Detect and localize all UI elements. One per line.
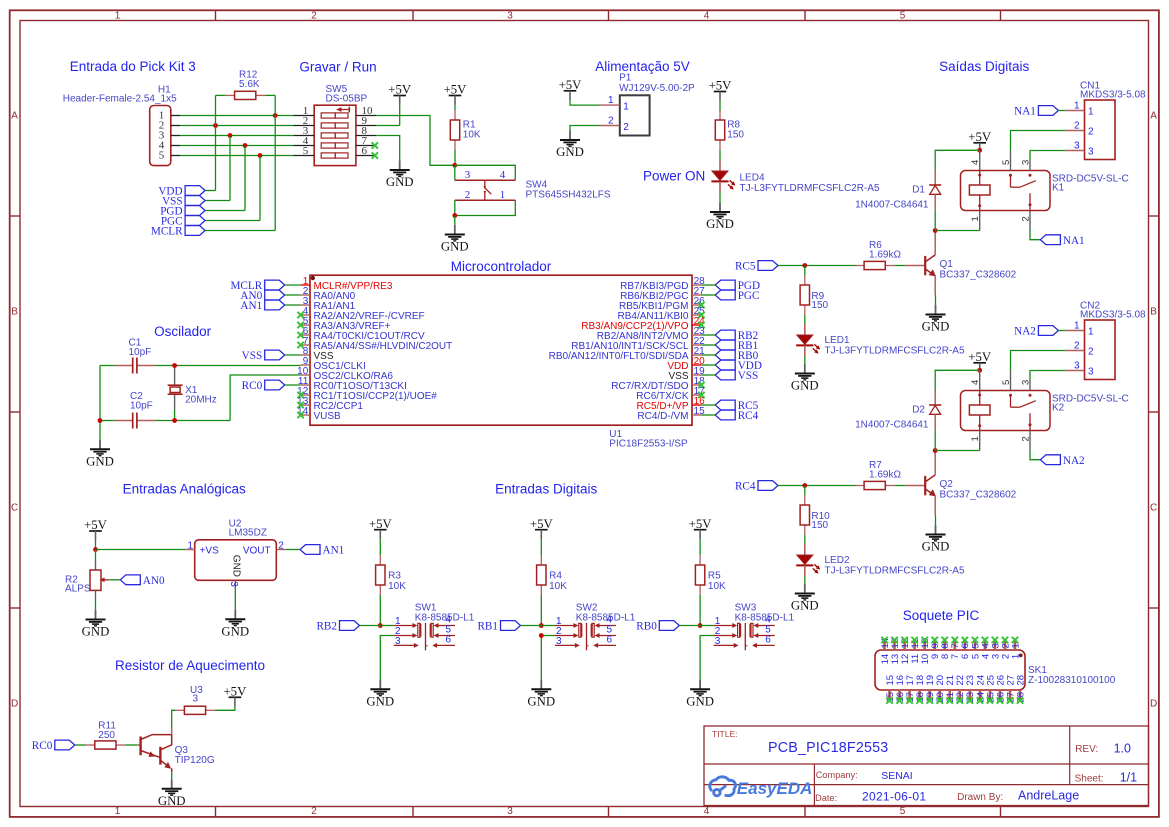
svg-text:D1: D1	[912, 185, 925, 196]
svg-text:250: 250	[98, 730, 115, 741]
svg-text:1N4007-C84641: 1N4007-C84641	[855, 420, 929, 431]
svg-text:+5V: +5V	[223, 685, 247, 699]
wire U1 to VDD flag	[701, 364, 715, 366]
svg-text:MKDS3/3-5.08: MKDS3/3-5.08	[1080, 90, 1146, 101]
net flag PGC	[161, 216, 205, 228]
ground GND below LED2	[791, 584, 819, 613]
wire collector node to K1 pin 1	[935, 230, 980, 232]
wire D1 to Q1 collector node	[934, 210, 936, 231]
svg-text:VUSB: VUSB	[314, 411, 342, 422]
svg-text:B: B	[1150, 306, 1157, 317]
wire D2 to Q2 collector node	[934, 430, 936, 451]
pin 7 RA5/AN4/SS#/HLVDIN/C2OUT	[301, 336, 453, 352]
svg-text:5: 5	[900, 10, 906, 21]
svg-text:RB2: RB2	[316, 621, 337, 633]
junction dot Q2 collector node	[933, 448, 938, 453]
pin 10 OSC2/CLKO/RA6	[297, 366, 393, 382]
no-connect X SW5 pin 7	[372, 142, 378, 148]
net flag RC0 source	[32, 740, 75, 752]
svg-text:Oscilador: Oscilador	[154, 324, 212, 339]
wire R8 to LED4	[719, 150, 721, 160]
wire PGC vertical	[259, 156, 261, 221]
svg-text:PGC: PGC	[738, 290, 760, 302]
wire R6 to Q1 base	[895, 265, 906, 267]
svg-text:K1: K1	[1052, 183, 1065, 194]
wire VSS vertical	[229, 136, 231, 201]
socket pin 24 bottom	[975, 675, 986, 703]
svg-text:150: 150	[727, 130, 744, 141]
svg-text:Sheet:: Sheet:	[1075, 773, 1104, 784]
wire SW2 pin 2 to GND	[541, 636, 555, 680]
wire RC5 to R6	[778, 265, 855, 267]
svg-text:C: C	[11, 502, 18, 513]
resistor R1 10K	[450, 110, 481, 150]
svg-text:GND: GND	[366, 695, 394, 709]
net flag PGD	[160, 206, 205, 218]
svg-text:+VS: +VS	[200, 546, 220, 557]
no-connect X socket pin 28	[1017, 697, 1023, 703]
svg-text:TIP120G: TIP120G	[175, 755, 215, 766]
wire VSS flag to U1	[285, 354, 301, 356]
svg-text:D: D	[1150, 698, 1157, 709]
ground GND below SW5 pin 8	[386, 160, 414, 189]
svg-text:GND: GND	[527, 695, 555, 709]
svg-text:4: 4	[704, 10, 710, 21]
resistor U3 3	[175, 685, 215, 714]
wire node to SW3 pin 1	[700, 625, 714, 627]
svg-text:R3: R3	[388, 571, 401, 582]
svg-text:AN1: AN1	[240, 300, 262, 312]
net flag RB2 at U1 right	[715, 330, 758, 342]
pin 13 RC2/CCP1	[297, 396, 363, 412]
svg-text:D: D	[11, 698, 18, 709]
wire RC4 to R7	[778, 485, 855, 487]
net flag VSS	[162, 196, 205, 208]
net flag RC5 at U1 right	[715, 400, 758, 412]
svg-text:VSS: VSS	[242, 350, 263, 362]
net flag NA2 at CN2	[1014, 326, 1058, 338]
svg-text:Z-10028310100100: Z-10028310100100	[1028, 675, 1116, 686]
pin 16 RC5/D+/VP	[637, 396, 706, 412]
no-connect X socket pin 8	[942, 637, 948, 643]
svg-text:GND: GND	[706, 217, 734, 231]
net flag MCLR at U1	[230, 280, 284, 292]
svg-text:1: 1	[1074, 100, 1080, 111]
ground GND below Q3	[158, 779, 186, 808]
svg-text:NA1: NA1	[1014, 106, 1036, 118]
svg-text:REV:: REV:	[1075, 744, 1098, 755]
power +5V at K2	[968, 350, 992, 372]
svg-text:ALPS: ALPS	[65, 584, 91, 595]
no-connect X pin 24	[698, 322, 704, 328]
no-connect X socket pin 2	[1002, 637, 1008, 643]
net flag AN1 at U2	[300, 545, 344, 557]
wire oscillator ground leg	[99, 366, 101, 421]
svg-text:5: 5	[303, 145, 309, 157]
no-connect X SW5 pin 6	[372, 152, 378, 158]
svg-text:4: 4	[500, 169, 506, 181]
svg-text:10K: 10K	[463, 130, 481, 141]
svg-text:Alimentação 5V: Alimentação 5V	[595, 59, 690, 74]
svg-text:VOUT: VOUT	[243, 546, 271, 557]
svg-text:TJ-L3FYTLDRMFCSFLC2R-A5: TJ-L3FYTLDRMFCSFLC2R-A5	[825, 566, 965, 577]
pin 15 RC4/D-/VM	[637, 406, 705, 422]
svg-text:150: 150	[811, 520, 828, 531]
diode D2 1N4007-C84641	[855, 391, 941, 431]
tact switch SW3 K8-8585D-L1	[714, 602, 795, 650]
svg-text:SENAI: SENAI	[881, 770, 913, 782]
wire R11 to Q3 base	[125, 744, 137, 746]
svg-text:2: 2	[608, 116, 614, 127]
ground GND below SW3	[686, 680, 714, 709]
svg-text:Resistor de Aquecimento: Resistor de Aquecimento	[115, 658, 265, 673]
ground GND below LED1	[791, 364, 819, 393]
wire Q2 collector	[934, 451, 936, 475]
svg-text:GND: GND	[158, 794, 186, 808]
svg-text:RC4: RC4	[738, 410, 759, 422]
no-connect X socket pin 19	[927, 697, 933, 703]
wire CN2 pin 3 to K2 pin 3	[1030, 371, 1065, 381]
socket pin 18 bottom	[915, 675, 926, 703]
svg-text:+5V: +5V	[388, 83, 412, 97]
wire MCLR flag to U1	[285, 284, 301, 286]
svg-text:10pF: 10pF	[129, 347, 152, 358]
ground GND at Q2	[922, 525, 950, 554]
socket pin 10 top	[920, 638, 931, 664]
net flag NA1 at K1	[1040, 235, 1084, 247]
pin 18 RC7/RX/DT/SDO	[611, 376, 705, 392]
wire LED1 to GND	[804, 357, 806, 364]
ground GND below SW2	[527, 680, 555, 709]
transistor Q1 BC337_C328602	[925, 255, 1016, 281]
svg-text:3: 3	[556, 636, 562, 647]
pin 11 RC0/T1OSO/T13CKI	[298, 376, 407, 392]
svg-text:2: 2	[1021, 436, 1032, 441]
svg-text:GND: GND	[82, 625, 110, 639]
resistor R7 1.69kOhm	[855, 460, 902, 490]
pin 26 RB5/KBI1/PGM	[619, 296, 705, 312]
svg-text:MKDS3/3-5.08: MKDS3/3-5.08	[1080, 310, 1146, 321]
wire RC0 flag to U1	[285, 384, 301, 386]
socket SK1 Z-10028310100100	[875, 650, 1116, 690]
pin 3 RA1/AN1	[301, 296, 356, 312]
svg-text:1.69kΩ: 1.69kΩ	[869, 470, 901, 481]
no-connect X socket pin 13	[891, 637, 897, 643]
svg-text:1: 1	[1088, 326, 1094, 337]
svg-text:R4: R4	[549, 571, 562, 582]
svg-text:1: 1	[115, 10, 121, 21]
wire U2 GND pin	[234, 590, 236, 610]
no-connect X socket pin 10	[922, 637, 928, 643]
pin 27 RB6/KBI2/PGC	[620, 286, 705, 302]
wire K2 pin 2 to NA2	[1030, 450, 1040, 460]
svg-text:TJ-L3FYTLDRMFCSFLC2R-A5: TJ-L3FYTLDRMFCSFLC2R-A5	[825, 346, 965, 357]
no-connect X pin 13	[297, 402, 303, 408]
svg-text:Saídas Digitais: Saídas Digitais	[939, 59, 1029, 74]
socket pin 13 top	[890, 638, 901, 664]
svg-text:1: 1	[187, 541, 193, 552]
pin 1 MCLR#/VPP/RE3	[301, 276, 393, 292]
svg-text:GND: GND	[231, 555, 242, 577]
svg-text:1: 1	[623, 102, 629, 113]
ground GND below SW1	[366, 680, 394, 709]
no-connect X pin 5	[297, 322, 303, 328]
LED LED4 TJ-L3FYTLDRMFCSFLC2R-A5	[711, 160, 880, 195]
svg-text:Power ON: Power ON	[643, 168, 705, 183]
svg-text:5: 5	[1001, 160, 1012, 165]
no-connect X socket pin 17	[906, 697, 912, 703]
svg-text:3: 3	[1088, 366, 1094, 377]
svg-text:3: 3	[1074, 140, 1080, 151]
socket pin 16 bottom	[895, 675, 906, 703]
connector CN1 MKDS3/3-5.08	[1065, 81, 1146, 160]
svg-text:Company:: Company:	[816, 770, 858, 780]
svg-text:3: 3	[465, 169, 471, 181]
wire PGC flag to vertical	[205, 220, 260, 222]
DIP switch SW5 DS-05BP	[294, 84, 377, 166]
socket pin 25 bottom	[985, 675, 996, 703]
svg-text:4: 4	[704, 806, 710, 817]
net flag RC4 source	[735, 481, 778, 493]
junction dot RB1 node	[539, 623, 544, 628]
net flag MCLR	[151, 226, 205, 238]
wire CN2 pin 2 to K2 pin 5	[1011, 351, 1065, 371]
socket pin 7 top	[950, 640, 961, 659]
wire CN1 pin 3 to K1 pin 3	[1030, 151, 1065, 161]
net flag AN0	[120, 575, 165, 587]
socket pin 14 top	[880, 638, 891, 664]
wire H1 pin 4 to SW5 pin 4	[180, 145, 294, 147]
svg-text:6: 6	[607, 634, 613, 645]
wire Q3 emitter to GND	[171, 772, 173, 779]
socket pin 8 top	[940, 640, 951, 659]
svg-text:+5V: +5V	[689, 517, 713, 531]
socket pin 20 bottom	[935, 675, 946, 703]
svg-text:TITLE:: TITLE:	[712, 729, 738, 739]
svg-text:RC4/D-/VM: RC4/D-/VM	[637, 411, 688, 422]
svg-text:1: 1	[1074, 320, 1080, 331]
svg-text:GND: GND	[386, 175, 414, 189]
net flag RB1 at U1 right	[715, 340, 758, 352]
svg-text:1: 1	[500, 189, 506, 201]
power +5V above R1	[444, 83, 468, 105]
svg-text:6: 6	[446, 634, 452, 645]
wire R5 to node	[699, 595, 701, 626]
pin 4 RA2/AN2/VREF-/CVREF	[301, 306, 425, 322]
no-connect X socket pin 23	[967, 697, 973, 703]
wire RB2 flag to node	[360, 625, 381, 627]
wire +5V to D2	[935, 370, 980, 390]
svg-text:5.6K: 5.6K	[239, 79, 260, 90]
svg-text:3: 3	[193, 694, 199, 705]
wire H1 pin 3 to SW5 pin 3	[180, 135, 294, 137]
no-connect X pin 6	[297, 332, 303, 338]
svg-text:GND: GND	[791, 379, 819, 393]
svg-text:Gravar / Run: Gravar / Run	[299, 60, 376, 75]
svg-text:3: 3	[715, 636, 721, 647]
resistor R8 150	[715, 110, 744, 150]
svg-text:LED2: LED2	[825, 555, 850, 566]
socket pin 1 top	[1010, 640, 1021, 659]
junction dot oscillator gnd	[98, 418, 103, 423]
junction dot RB0 node	[698, 623, 703, 628]
svg-text:Drawn By:: Drawn By:	[957, 792, 1003, 803]
wire node to SW2 pin 1	[541, 625, 555, 627]
wire R7 to Q2 base	[895, 485, 906, 487]
svg-text:MCLR: MCLR	[151, 226, 183, 238]
svg-text:+5V: +5V	[709, 79, 733, 93]
socket pin 26 bottom	[995, 675, 1006, 703]
wire +5V to R5	[699, 539, 701, 555]
microcontroller U1 PIC18F2553-I/SP	[310, 275, 692, 450]
ground GND below R2	[82, 610, 110, 639]
wire node to SW1 pin 1	[380, 625, 394, 627]
svg-text:BC337_C328602: BC337_C328602	[940, 490, 1017, 501]
no-connect X socket pin 9	[932, 637, 938, 643]
socket pin 19 bottom	[925, 675, 936, 703]
svg-text:1: 1	[115, 806, 121, 817]
net flag RB1	[477, 621, 520, 633]
svg-text:10K: 10K	[549, 581, 567, 592]
svg-text:GND: GND	[441, 240, 469, 254]
pin 25 RB4/AN11/KBI0	[618, 306, 706, 322]
power +5V above R8	[709, 79, 733, 101]
ground GND oscillator	[86, 440, 114, 469]
wire AN1 flag to U1	[285, 304, 301, 306]
svg-text:RC5: RC5	[735, 261, 756, 273]
net flag RB0 at U1 right	[715, 350, 758, 362]
wire U1 to RC5 flag	[701, 404, 715, 406]
svg-text:R5: R5	[708, 571, 721, 582]
wire R12 left to VDD vertical	[216, 94, 226, 96]
power +5V at U3	[223, 685, 247, 707]
no-connect X socket pin 12	[901, 637, 907, 643]
wire OSC2 net	[100, 420, 115, 422]
svg-text:1.0: 1.0	[1114, 741, 1131, 755]
svg-text:4: 4	[970, 160, 981, 165]
connector H1 Header-Female-2.54_1x5	[63, 85, 180, 166]
svg-text:3: 3	[507, 806, 513, 817]
no-connect X pin 4	[297, 312, 303, 318]
wire +5V to R3	[379, 539, 381, 555]
svg-text:10pF: 10pF	[130, 401, 153, 412]
svg-text:Microcontrolador: Microcontrolador	[451, 259, 552, 274]
svg-text:BC337_C328602: BC337_C328602	[940, 270, 1017, 281]
svg-text:B: B	[11, 306, 18, 317]
svg-text:C: C	[1150, 502, 1157, 513]
pin 14 VUSB	[297, 406, 341, 422]
junction dot SW2 pin2 node	[539, 633, 544, 638]
connector CN2 MKDS3/3-5.08	[1065, 301, 1146, 380]
resistor R10 150	[800, 486, 830, 536]
no-connect X socket pin 25	[987, 697, 993, 703]
power +5V analog	[84, 518, 108, 540]
svg-text:28: 28	[1015, 675, 1026, 686]
svg-text:3: 3	[1074, 360, 1080, 371]
wire U1 to PGD flag	[701, 284, 715, 286]
svg-text:1: 1	[1010, 654, 1021, 659]
resistor R12 5.6K	[225, 70, 265, 100]
relay K1 SRD-DC5V-SL-C	[961, 150, 1129, 230]
socket pin 17 bottom	[905, 675, 916, 703]
resistor R3 10K	[376, 555, 407, 595]
svg-text:+5V: +5V	[530, 517, 554, 531]
svg-text:2: 2	[1074, 340, 1080, 351]
svg-text:1: 1	[1010, 643, 1021, 648]
no-connect X pin 26	[698, 302, 704, 308]
power +5V at P1	[559, 78, 583, 100]
pin 19 VSS	[668, 366, 705, 382]
ground GND below U2	[221, 610, 249, 639]
svg-text:2: 2	[278, 541, 284, 552]
power +5V above R4	[530, 517, 554, 539]
net flag RC4 at U1 right	[715, 410, 758, 422]
wire VDD flag to vertical	[205, 190, 215, 192]
svg-text:Entrada do Pick Kit 3: Entrada do Pick Kit 3	[70, 59, 196, 74]
junction dot RC4 node	[802, 483, 807, 488]
ground GND at P1	[556, 130, 584, 159]
svg-text:GND: GND	[686, 695, 714, 709]
pushbutton SW4 PTS645SH432LFS	[455, 169, 611, 201]
net flag RC5 source	[735, 261, 778, 273]
no-connect X socket pin 7	[952, 637, 958, 643]
socket pin 22 bottom	[955, 675, 966, 703]
transistor Q2 BC337_C328602	[925, 475, 1016, 501]
junction dot pin4/PGD	[243, 143, 248, 148]
junction dot RC5 node	[802, 263, 807, 268]
junction dot R1/SW4 node	[452, 163, 457, 168]
wire R1 to SW4 junction	[454, 150, 456, 165]
wire SW5 pin 10 to SW4 node	[376, 116, 455, 166]
socket pin 15 bottom	[885, 675, 896, 703]
wire Q1 collector	[934, 231, 936, 255]
junction dot SW4 ground node	[452, 213, 457, 218]
svg-text:NA2: NA2	[1063, 455, 1085, 467]
svg-text:PCB_PIC18F2553: PCB_PIC18F2553	[768, 740, 888, 756]
svg-text:6: 6	[765, 634, 771, 645]
svg-text:20MHz: 20MHz	[185, 395, 217, 406]
socket pin 9 top	[930, 640, 941, 659]
svg-text:RC0: RC0	[32, 740, 53, 752]
svg-text:1: 1	[1088, 106, 1094, 117]
svg-text:Entradas Analógicas: Entradas Analógicas	[123, 482, 246, 497]
no-connect X socket pin 27	[1007, 697, 1013, 703]
wire Q3 collector up	[171, 728, 173, 735]
resistor R6 1.69kOhm	[855, 240, 902, 270]
svg-text:GND: GND	[221, 624, 249, 638]
net flag VSS at U1	[242, 350, 285, 362]
svg-text:1: 1	[608, 95, 614, 106]
wire U1 to VSS flag	[701, 374, 715, 376]
svg-text:D2: D2	[912, 405, 925, 416]
svg-text:5: 5	[900, 806, 906, 817]
wire SW5 pin 8 to GND	[376, 136, 400, 161]
ground GND below SW4	[441, 225, 469, 254]
wire +5V to R8	[719, 101, 721, 112]
crystal X1 20MHz	[168, 366, 217, 421]
svg-text:5: 5	[159, 149, 165, 161]
wire VDD vertical	[215, 95, 217, 190]
pin 2 RA0/AN0	[301, 286, 356, 302]
wire R9 to LED1	[804, 315, 806, 324]
svg-text:GND: GND	[791, 599, 819, 613]
wire RB0 flag to node	[679, 625, 700, 627]
net flag VDD at U1 right	[715, 360, 762, 372]
svg-text:LED4: LED4	[740, 173, 765, 184]
svg-text:Entradas Digitais: Entradas Digitais	[495, 482, 597, 497]
pin 9 OSC1/CLKI	[301, 356, 366, 372]
socket pin 6 top	[960, 640, 971, 659]
